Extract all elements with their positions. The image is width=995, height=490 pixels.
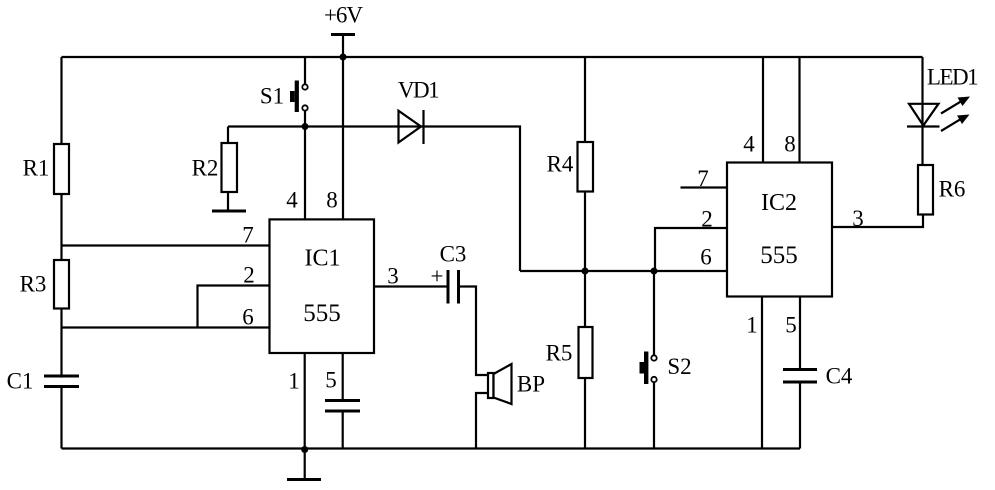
capacitor C3 (polarized): [431, 242, 467, 304]
capacitor C1: [7, 369, 79, 394]
wire IC1 pin 1 to ground rail: [288, 353, 304, 450]
ground under R2: [212, 210, 246, 213]
wire IC1 pin 5 to C2: [325, 353, 342, 450]
resistor R5: [546, 271, 593, 449]
svg-text:6: 6: [700, 245, 712, 270]
svg-text:555: 555: [303, 300, 341, 327]
diode VD1: [398, 78, 439, 145]
wire IC2 pin 6 horizontal: [520, 270, 727, 272]
wire S2 bottom to ground rail: [653, 382, 655, 448]
svg-text:8: 8: [326, 188, 338, 213]
wire IC1 pin 7: [62, 223, 270, 248]
svg-text:3: 3: [387, 264, 399, 289]
svg-text:8: 8: [784, 132, 796, 157]
node junction dot pin1/ground: [301, 446, 308, 453]
node junction dot S2 top: [651, 268, 658, 275]
svg-text:+6V: +6V: [324, 3, 363, 28]
wire through VD1 to corner: [399, 125, 424, 127]
svg-text:C3: C3: [440, 242, 467, 267]
wire R2 corner to VD1 anode: [228, 125, 399, 127]
svg-text:LED1: LED1: [927, 65, 978, 90]
switch S1: [260, 81, 308, 113]
svg-text:7: 7: [697, 166, 709, 191]
ground under IC1 pin 1: [287, 450, 321, 480]
svg-text:+: +: [431, 264, 444, 289]
wire IC2 pin 4: [743, 57, 763, 163]
svg-text:IC1: IC1: [305, 246, 341, 272]
wire S2 top: [653, 271, 655, 355]
svg-text:1: 1: [746, 313, 758, 338]
svg-text:R2: R2: [192, 156, 219, 181]
svg-text:BP: BP: [517, 372, 545, 397]
wire IC2 pin 7 stub: [681, 166, 728, 191]
svg-text:S2: S2: [667, 354, 691, 379]
resistor R1: [23, 144, 69, 194]
wire IC1 pin 8 (+6V): [326, 57, 343, 219]
resistor R3: [20, 260, 69, 309]
wire IC2 pin 2: [655, 207, 727, 272]
wire IC1 pin 6: [62, 305, 270, 330]
svg-text:2: 2: [701, 207, 713, 232]
node junction dot at +6V on rail: [340, 54, 347, 61]
svg-text:C4: C4: [826, 364, 853, 389]
svg-text:4: 4: [743, 132, 755, 157]
resistor R2: [192, 127, 237, 212]
svg-text:R1: R1: [23, 156, 50, 181]
wire bottom ground rail: [62, 447, 801, 449]
wire IC2 pin 5 to C4: [785, 297, 800, 449]
IC1 op chip 555: [270, 219, 375, 353]
power +6V: [324, 3, 363, 58]
node junction dot R4/wire: [582, 268, 589, 275]
IC2 op chip 555: [727, 163, 832, 297]
wire IC1 pin 3 to C3: [374, 264, 448, 289]
svg-text:R6: R6: [939, 177, 966, 202]
wire speaker bottom terminal to ground rail: [476, 393, 488, 449]
wire left vertical rail: [60, 57, 62, 449]
svg-text:R5: R5: [546, 341, 573, 366]
svg-text:C1: C1: [7, 369, 34, 394]
svg-text:IC2: IC2: [761, 190, 797, 216]
svg-text:1: 1: [288, 369, 300, 394]
capacitor C2 (unlabeled, at IC1 pin 5): [325, 401, 360, 412]
wire IC2 pin 1 to ground rail: [746, 297, 762, 449]
wire IC1 pin 4: [286, 127, 305, 220]
switch S2: [640, 352, 692, 385]
wire C3 to speaker BP: [459, 287, 489, 376]
svg-text:R3: R3: [20, 272, 47, 297]
wire from rail down to S1: [304, 57, 306, 84]
resistor R4: [547, 57, 593, 271]
svg-text:6: 6: [242, 305, 254, 330]
resistor R6: [918, 165, 965, 215]
wire right vertical from rail to LED: [921, 57, 923, 165]
wire IC2 pin 3 to R6: [832, 206, 923, 231]
svg-text:S1: S1: [260, 84, 284, 109]
svg-text:2: 2: [243, 263, 255, 288]
svg-text:R4: R4: [547, 152, 574, 177]
label IC2 pin 6: [700, 245, 712, 270]
wire S1 bottom to junction: [304, 111, 306, 127]
svg-text:7: 7: [242, 223, 254, 248]
svg-text:5: 5: [325, 368, 337, 393]
LED LED1: [907, 65, 978, 132]
wire IC1 pin 2: [198, 263, 270, 328]
wire VD1 cathode right then down to IC2 pin6 line: [424, 127, 521, 272]
svg-text:555: 555: [760, 242, 798, 269]
svg-text:4: 4: [286, 188, 298, 213]
svg-text:VD1: VD1: [398, 78, 439, 103]
svg-text:3: 3: [852, 206, 864, 231]
capacitor C4: [783, 364, 853, 389]
node junction dot S1/R2/VD1: [302, 123, 309, 130]
wire IC2 pin 8: [784, 57, 799, 163]
svg-text:5: 5: [785, 313, 797, 338]
wire top supply rail: [62, 56, 923, 58]
speaker BP: [488, 364, 545, 404]
